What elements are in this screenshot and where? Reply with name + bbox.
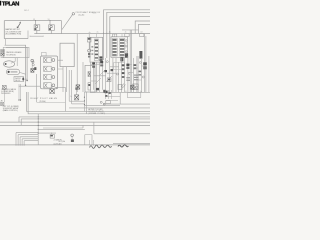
- wire cluster jogs 2: [107, 67, 119, 73]
- wire pump outlet diagonal: [20, 72, 26, 74]
- wire bus 5: [0, 121, 150, 123]
- svg-text:4e: 4e: [96, 91, 98, 93]
- arrowheads: [18, 100, 21, 102]
- wire bus 1: [27, 92, 150, 111]
- wire right column a: [127, 56, 129, 92]
- svg-text:4-03: 4-03: [93, 13, 97, 15]
- label CONTROL VALVE LOWER: [1, 88, 17, 95]
- label PROPSHAFT BRAKE VALVE: [76, 11, 101, 16]
- relay K2: [48, 19, 55, 34]
- wire enclosure right: [64, 87, 66, 111]
- svg-text:541-2: 541-2: [24, 10, 29, 12]
- wire box bottom left: [1, 57, 20, 59]
- drain valve X: [131, 85, 138, 89]
- leader arrow to bus: [17, 22, 21, 28]
- svg-text:4a: 4a: [97, 32, 99, 34]
- node circle h: [139, 62, 141, 64]
- solenoid blob e: [104, 70, 107, 72]
- valve block V1: [90, 37, 103, 62]
- pilot valve X mid: [70, 95, 79, 100]
- aux box right: [118, 85, 122, 90]
- valve block V2: [111, 37, 128, 58]
- wire nested corner 4: [135, 21, 150, 33]
- wire balloon drop: [76, 90, 78, 95]
- svg-text:RIGHT PILOT VALVE: RIGHT PILOT VALVE: [30, 97, 57, 100]
- terminal marks: [1, 102, 4, 105]
- wire long vertical: [76, 34, 78, 92]
- wire ellipse link: [11, 58, 17, 67]
- pump port dot: [5, 63, 7, 65]
- gauge circle: [71, 134, 74, 137]
- terminal circles cluster: [100, 101, 105, 105]
- junction dots bottom: [15, 144, 24, 145]
- node labels on header: [89, 32, 143, 34]
- wire box drop left: [5, 39, 7, 46]
- wire right column a2: [121, 58, 141, 92]
- wire relay row lower bus: [34, 33, 61, 35]
- pilot valve unit 2: [44, 66, 55, 71]
- label column small: [134, 75, 139, 81]
- svg-text:+B (MAIN): +B (MAIN): [53, 139, 62, 142]
- svg-text:M: M: [134, 86, 136, 89]
- master control box bottom wire: [4, 38, 28, 40]
- valve X pair mid right: [134, 64, 137, 69]
- valve X column left: [122, 64, 125, 78]
- arrow junction a: [26, 79, 28, 81]
- marks mid right: [139, 71, 142, 76]
- wire collector vertical: [37, 114, 39, 145]
- valve feed ticks: [97, 34, 123, 38]
- title SCHALTPLAN (cropped): [0, 1, 19, 8]
- junction dots header: [103, 33, 110, 34]
- wire enclosure bottom: [37, 101, 66, 103]
- wire mid horiz c: [84, 104, 120, 106]
- sub box mid right: [114, 63, 125, 70]
- wire right column d: [137, 56, 139, 92]
- wire inner horiz a: [69, 100, 84, 102]
- svg-text:4a: 4a: [89, 32, 91, 34]
- wire mid horiz d: [69, 107, 150, 109]
- svg-text:4d: 4d: [140, 32, 142, 34]
- manifold inlet box: [42, 52, 47, 56]
- shuttle valve X: [76, 85, 80, 89]
- label PARKING BRAKE SOLENOID: [6, 51, 22, 56]
- water valve box: [14, 77, 24, 82]
- wire fan 5: [24, 141, 38, 145]
- wire cluster verticals 2: [63, 57, 119, 92]
- pilot box right c: [113, 34, 117, 37]
- node balloon: [72, 13, 74, 15]
- wire right column c: [136, 56, 138, 92]
- wire nested corner 3: [110, 17, 150, 58]
- wire valve header bus: [62, 33, 151, 35]
- solenoid on V1: [99, 56, 102, 61]
- node circle e: [116, 73, 118, 75]
- check valve mark: [34, 67, 36, 70]
- wire nested corner 2: [107, 12, 150, 58]
- regulator cluster: [105, 90, 120, 101]
- solenoid under gauge: [71, 139, 74, 142]
- arrow junction b: [25, 84, 27, 86]
- relay contact stack left edge: [1, 50, 5, 56]
- node circle g: [128, 73, 130, 75]
- leader diagonal 3: [106, 76, 112, 82]
- pump motor ellipse: [3, 61, 14, 67]
- wire arrow pair left: [19, 84, 21, 101]
- parking brake box: [3, 47, 29, 57]
- wire bottom right link: [113, 143, 150, 145]
- handwriting squiggle: [90, 145, 112, 148]
- wire right column f: [148, 56, 150, 92]
- wire stub with ticks: [30, 36, 43, 37]
- wire fan 2: [18, 135, 38, 145]
- wire lower link a: [38, 128, 85, 130]
- wire feed to manifold: [19, 85, 41, 87]
- bus junction dots: [35, 20, 51, 21]
- relay K1: [33, 19, 40, 34]
- label LIFT CYL SOLENOID: [3, 106, 19, 112]
- pump inlet dot: [8, 71, 10, 73]
- pilot box right a: [140, 34, 144, 37]
- wire inner horiz b: [72, 103, 85, 105]
- master control box left edge wire: [3, 21, 5, 39]
- oil cooler box: [85, 65, 95, 92]
- wire right drop from top bus: [61, 21, 63, 34]
- wire bus 2: [28, 92, 150, 114]
- wire gauge stem: [71, 137, 73, 140]
- pilot box right b: [125, 34, 129, 37]
- solenoid blob a: [92, 62, 95, 64]
- test point node a: [32, 61, 34, 63]
- pilot valve unit 1: [44, 57, 55, 62]
- wire lower link b: [38, 132, 56, 134]
- solenoid blob c: [100, 61, 103, 63]
- svg-text:4b: 4b: [109, 32, 111, 34]
- svg-text:(MAIN CONTROL): (MAIN CONTROL): [3, 109, 18, 112]
- solenoid under V2: [125, 53, 128, 57]
- wire enclosure left: [36, 74, 38, 102]
- node balloon mid: [75, 87, 77, 89]
- terminal box cluster: [106, 101, 111, 104]
- pilot valve unit 3: [44, 74, 55, 79]
- pilot valve unit 4: [44, 83, 55, 88]
- wire nested corner 5: [139, 24, 151, 33]
- check valve X: [31, 68, 34, 72]
- motor box M: [133, 84, 138, 90]
- wire bus 3: [19, 117, 150, 122]
- svg-text:(PUSH): (PUSH): [39, 101, 46, 103]
- svg-text:VALVE: VALVE: [15, 79, 21, 82]
- hatch diagonals box B: [125, 42, 129, 50]
- collector dots: [38, 116, 39, 133]
- wire nested corner 1: [104, 10, 151, 60]
- solenoid blob b: [92, 66, 95, 68]
- accumulator chain right: [143, 62, 147, 69]
- wire fan 4: [22, 139, 38, 145]
- pilot solenoid S1: [50, 86, 58, 94]
- wire node drop: [31, 62, 33, 69]
- wire cluster jogs: [91, 64, 106, 81]
- label marks left of column: [126, 77, 130, 81]
- test point node b: [32, 64, 34, 66]
- wire stubs bottom center: [89, 140, 93, 146]
- solenoid lower-left: [2, 85, 6, 102]
- brake valve X right: [126, 64, 129, 69]
- wire chain feed: [88, 34, 90, 38]
- junction dots: [84, 97, 85, 105]
- wire fan 1: [16, 133, 38, 145]
- wire box lower center top: [43, 125, 83, 128]
- master control box right edge wire: [27, 31, 29, 39]
- relief valve chain: [87, 38, 91, 58]
- wire top bus: [4, 20, 61, 22]
- solenoid blob d: [100, 64, 103, 66]
- svg-text:53: 53: [33, 19, 35, 21]
- wire pair upper left feed: [5, 45, 26, 86]
- wire right column e: [145, 33, 146, 92]
- svg-text:(4-RELAY): (4-RELAY): [53, 143, 62, 146]
- svg-text:fL: fL: [51, 133, 52, 135]
- wire right drop: [119, 93, 121, 105]
- wire junction column: [84, 92, 86, 114]
- wire right corner low: [94, 122, 150, 134]
- svg-text:(NORMAL CLOSED): (NORMAL CLOSED): [88, 112, 105, 115]
- label MASTER LIFT/TILT text: [5, 28, 22, 35]
- wire mid-right bus: [90, 92, 150, 94]
- diagonal ref marks: [121, 84, 126, 89]
- wire pilot top link: [55, 86, 66, 88]
- svg-text:(IN LOWERED POS): (IN LOWERED POS): [5, 33, 21, 35]
- label text right mid: [88, 108, 105, 115]
- small box on bus: [127, 93, 140, 98]
- node circle f: [142, 76, 144, 78]
- solenoid fleck g: [103, 90, 105, 93]
- node circle C: [31, 59, 34, 62]
- wire pair lower left feed: [6, 47, 27, 81]
- breather comp: [50, 133, 54, 138]
- leader diagonals: [95, 70, 105, 84]
- main block box: [60, 43, 74, 66]
- wire short right link: [122, 29, 139, 31]
- wire right column b: [130, 30, 131, 92]
- pump label squiggle: [11, 71, 18, 73]
- leader line to valve note: [62, 15, 73, 30]
- pump body pill: [6, 69, 19, 74]
- wire manifold ports: [58, 60, 63, 69]
- wire water valve link: [24, 78, 27, 80]
- handwriting blob right: [118, 145, 128, 147]
- labels on bus: [96, 91, 142, 93]
- wire inner corners: [69, 70, 71, 104]
- solenoid right column: [139, 51, 142, 59]
- right jogs: [128, 65, 146, 81]
- wire bus 4: [21, 119, 150, 126]
- wire bus 6: [0, 124, 150, 126]
- solenoid fleck f: [96, 88, 99, 90]
- relay box lower right: [85, 135, 92, 145]
- solenoid under V2 col2: [120, 57, 123, 61]
- pilot manifold box: [41, 56, 58, 89]
- regulator block mid: [107, 78, 111, 82]
- svg-text:4b: 4b: [56, 87, 58, 89]
- wire bottom bus: [0, 144, 150, 146]
- svg-text:53: 53: [48, 19, 50, 21]
- wire right horiz: [103, 103, 150, 105]
- wire fan 3: [20, 137, 38, 145]
- wire cluster verticals: [91, 58, 106, 92]
- svg-text:TPLAN: TPLAN: [2, 2, 19, 8]
- node circle d: [106, 61, 108, 63]
- svg-text:SOLENOID: SOLENOID: [1, 93, 11, 95]
- solenoid fleck h: [111, 69, 114, 71]
- svg-text:(4a-4b): (4a-4b): [78, 15, 84, 17]
- svg-text:SOLENOID: SOLENOID: [6, 55, 16, 57]
- svg-text:4c: 4c: [125, 32, 127, 34]
